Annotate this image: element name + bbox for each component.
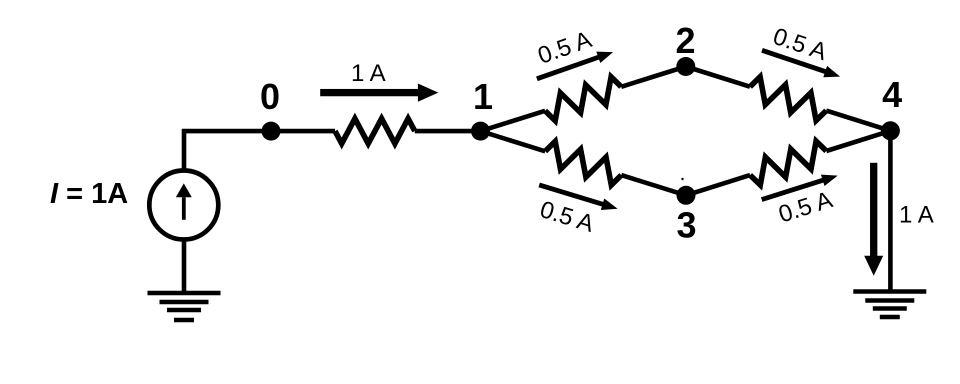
current arrow 1A right <box>870 163 877 258</box>
wire source bottom to ground <box>182 238 187 293</box>
svg-text:0.5 A: 0.5 A <box>537 196 597 238</box>
resistor R5 (node3-node4) <box>750 141 826 185</box>
speck artifact <box>681 178 683 180</box>
current source arrow <box>182 197 186 220</box>
wire from R1 to node 1 <box>415 129 481 134</box>
svg-text:1 A: 1 A <box>899 201 934 228</box>
svg-text:3: 3 <box>676 205 696 246</box>
svg-text:1 A: 1 A <box>351 60 386 87</box>
current arrow 0.5A top-left <box>537 52 613 79</box>
current source I1 circle <box>149 171 218 240</box>
wire node1 to R2 start <box>481 111 546 131</box>
wire node2 to R4 start <box>686 67 750 87</box>
ground GND1 (left) <box>148 293 221 320</box>
wire R2 end to node2 <box>621 67 686 87</box>
resistor R3 (node1-node3) <box>545 141 621 185</box>
svg-text:4: 4 <box>882 74 902 115</box>
svg-text:I = 1A: I = 1A <box>50 178 128 210</box>
node 3 <box>677 186 696 205</box>
svg-text:0.5 A: 0.5 A <box>770 23 830 66</box>
wire R5 end to node4 <box>826 131 890 151</box>
wire R3 end to node3 <box>621 175 686 195</box>
wire node4 down to ground <box>888 131 893 292</box>
current arrow 0.5A top-right <box>762 50 840 77</box>
resistor R1 (node0-node1) <box>335 119 415 144</box>
wire R4 end to node4 <box>826 111 890 131</box>
node 0 <box>262 122 281 141</box>
resistor R4 (node2-node4) <box>750 77 826 121</box>
node 1 <box>471 122 490 141</box>
node 4 <box>881 121 900 140</box>
svg-text:1: 1 <box>473 76 493 117</box>
node 2 <box>676 57 695 76</box>
wire node3 to R5 start <box>686 175 750 195</box>
current arrow 0.5A bottom-left <box>539 185 617 210</box>
current arrow 1A top <box>320 89 420 96</box>
wire node1 to R3 start <box>481 131 546 151</box>
current arrow 0.5A bottom-right <box>762 175 838 200</box>
svg-text:0: 0 <box>260 76 280 117</box>
svg-text:2: 2 <box>675 20 695 61</box>
resistor R2 (node1-node2) <box>545 77 621 121</box>
ground GND2 (right) <box>853 292 926 318</box>
wire from source top to node 0 and on to resistor R1 <box>184 131 335 172</box>
